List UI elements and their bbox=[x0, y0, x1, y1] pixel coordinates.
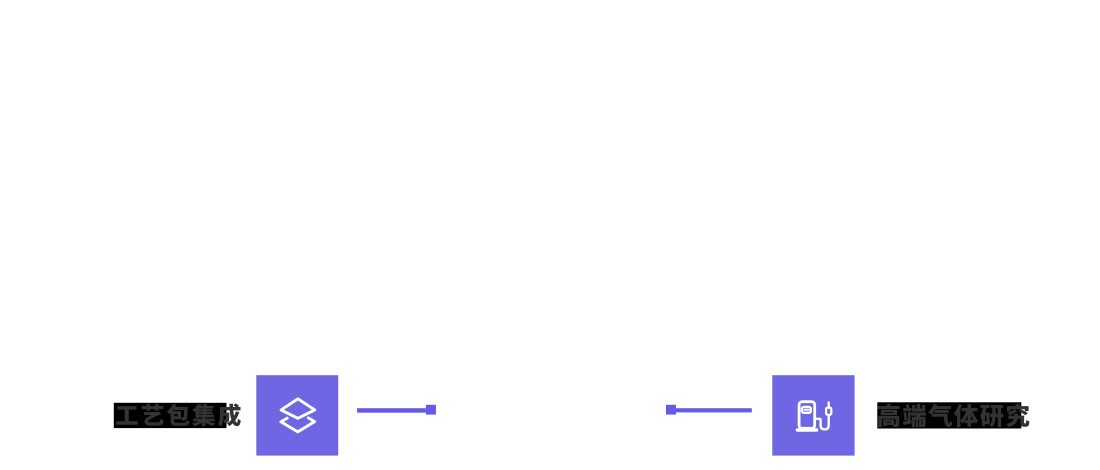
right icon tile bbox=[772, 375, 854, 455]
left label background box bbox=[114, 403, 227, 428]
right label text 高端气体研究 bbox=[878, 404, 1030, 428]
right connector line bbox=[676, 408, 752, 412]
right icon fuel pump glyph bbox=[797, 402, 831, 430]
left icon tile bbox=[256, 375, 338, 455]
left label text 工艺包集成 bbox=[116, 403, 241, 426]
left icon layers glyph bbox=[281, 399, 315, 432]
right label background box bbox=[877, 402, 1021, 428]
left connector line bbox=[357, 408, 426, 413]
left connector end square bbox=[426, 405, 436, 415]
right connector start square bbox=[666, 405, 676, 415]
